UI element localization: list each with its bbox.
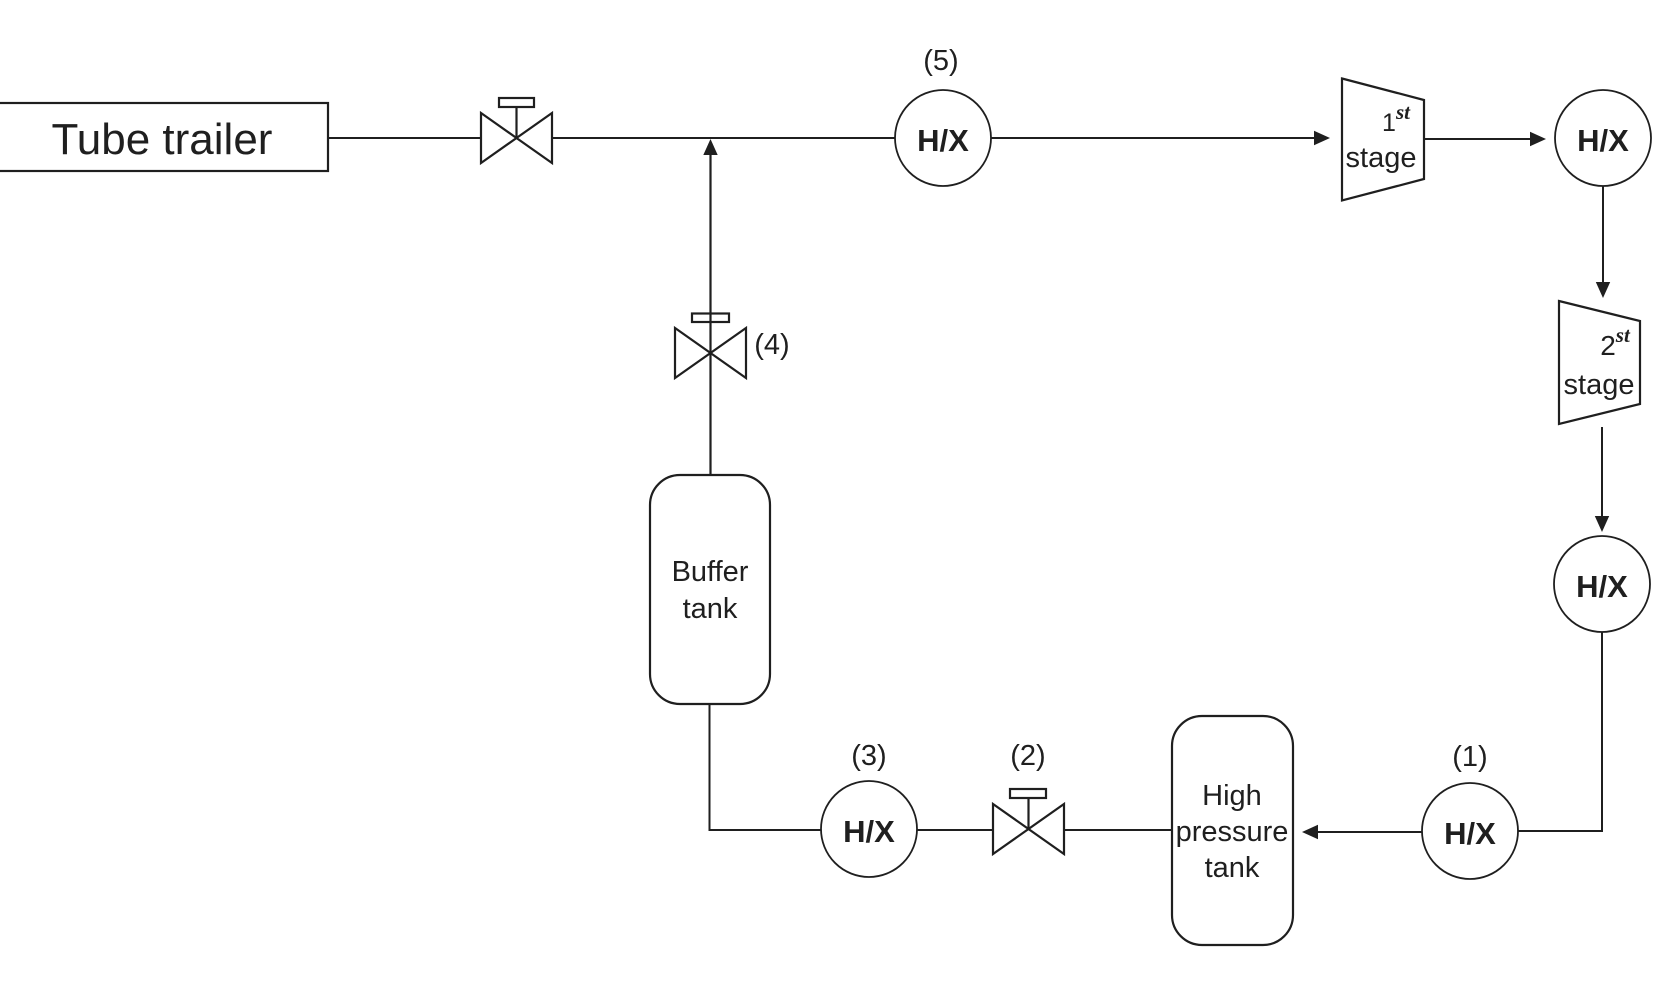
wire valve V2 to heat exchanger E3 — [917, 829, 993, 831]
svg-text:tank: tank — [683, 593, 738, 625]
heat exchanger E3 — [821, 781, 917, 877]
compressor 2nd stage — [1559, 301, 1640, 424]
svg-text:H/X: H/X — [1444, 816, 1496, 851]
tube trailer source box — [0, 103, 328, 171]
heat exchanger E1 — [1422, 783, 1518, 879]
heat exchanger E6 — [1555, 90, 1651, 186]
wire E3 left then up to buffer tank bottom — [710, 704, 822, 830]
wire tank to valve V2 — [1064, 829, 1172, 831]
buffer tank — [650, 475, 770, 704]
svg-text:(5): (5) — [923, 45, 958, 77]
svg-text:pressure: pressure — [1176, 816, 1289, 848]
svg-text:stage: stage — [1346, 142, 1417, 174]
svg-text:Tube trailer: Tube trailer — [52, 115, 273, 164]
svg-text:High: High — [1202, 780, 1262, 812]
svg-text:H/X: H/X — [1577, 123, 1629, 158]
svg-text:(3): (3) — [851, 740, 886, 772]
wire valve V1 to heat exchanger E5 — [552, 137, 895, 139]
svg-text:stage: stage — [1564, 369, 1635, 401]
hand valve V4 on riser — [675, 314, 746, 379]
heat exchanger E7 — [1554, 536, 1650, 632]
svg-text:(1): (1) — [1452, 741, 1487, 773]
svg-text:(4): (4) — [754, 329, 789, 361]
wire E5 to compressor stage 1 with arrowhead — [991, 131, 1330, 145]
wire E6 down to compressor stage 2 with arrowhead — [1596, 186, 1610, 298]
arrowhead junction into main line — [703, 139, 717, 155]
heat exchanger E5 — [895, 90, 991, 186]
wire E7 down then left to heat exchanger E1 — [1518, 632, 1602, 831]
svg-text:H/X: H/X — [917, 123, 969, 158]
svg-text:(2): (2) — [1010, 740, 1045, 772]
wire E1 to high pressure tank with arrowhead — [1302, 825, 1422, 839]
hand valve V2 — [993, 789, 1064, 854]
svg-text:Buffer: Buffer — [672, 556, 749, 588]
compressor 1st stage — [1342, 79, 1424, 201]
svg-text:tank: tank — [1205, 852, 1260, 884]
wire stage 2 down to heat exchanger E7 with arrowhead — [1595, 427, 1609, 532]
wire stage 1 to heat exchanger E6 with arrowhead — [1424, 132, 1546, 146]
high pressure tank — [1172, 716, 1293, 945]
svg-text:H/X: H/X — [1576, 569, 1628, 604]
hand valve V1 — [481, 98, 552, 163]
wire riser from valve V4 to main line junction — [709, 154, 711, 475]
svg-text:H/X: H/X — [843, 814, 895, 849]
wire tube trailer to valve V1 — [328, 137, 481, 139]
